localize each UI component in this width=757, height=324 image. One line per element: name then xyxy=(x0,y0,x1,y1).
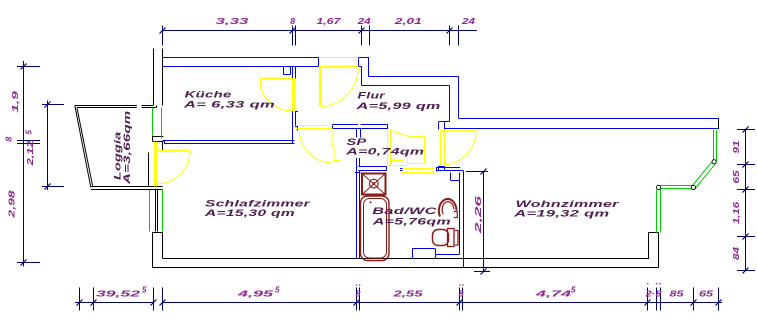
bad door frame xyxy=(403,168,435,170)
west wall junction bars xyxy=(153,136,164,138)
top dimension ticks xyxy=(162,26,164,46)
svg-text:4,74: 4,74 xyxy=(534,290,572,299)
svg-text:A= 6,33 qm: A= 6,33 qm xyxy=(182,99,275,109)
svg-text:5: 5 xyxy=(571,286,576,295)
svg-text:A=3,66qm: A=3,66qm xyxy=(122,111,132,186)
wohnzimmer door open leaf xyxy=(442,130,477,132)
schlafzimmer window xyxy=(149,190,151,232)
bad north wall west segment xyxy=(359,166,387,168)
top dimension line xyxy=(163,30,478,32)
blue walls xyxy=(163,58,720,268)
svg-text:3,33: 3,33 xyxy=(216,17,250,26)
SP door arc xyxy=(299,131,332,163)
svg-text:8: 8 xyxy=(459,290,465,299)
corridor diagonal leaf xyxy=(391,131,424,137)
schlafzimmer SW corner xyxy=(152,233,154,268)
bad door right jamb xyxy=(436,167,438,172)
washbasin xyxy=(439,199,457,217)
bay window east vertical xyxy=(713,130,715,162)
SP west wall upper stub xyxy=(356,129,358,138)
entry stub wall xyxy=(359,57,370,59)
yellow doors xyxy=(155,58,477,187)
bad NE duct notch xyxy=(450,173,452,181)
bottom dimension line xyxy=(75,302,154,304)
bay corner walls xyxy=(648,233,650,259)
wohnzimmer door closed leaf xyxy=(440,130,442,166)
loggia slanted west wall xyxy=(75,106,91,188)
svg-text:8: 8 xyxy=(356,290,362,299)
kueche partition notch xyxy=(283,67,285,75)
svg-text:85: 85 xyxy=(670,290,685,299)
svg-text:1,9: 1,9 xyxy=(11,90,20,113)
kueche window xyxy=(152,108,154,137)
bath fixtures xyxy=(361,174,459,261)
svg-text:A=19,32 qm: A=19,32 qm xyxy=(513,209,610,219)
schlafzimmer window mid frame xyxy=(155,190,157,232)
loggia door arc xyxy=(157,150,190,184)
toilet xyxy=(433,230,449,246)
svg-text:8: 8 xyxy=(656,290,663,299)
kueche door jamb cap xyxy=(296,111,299,113)
SP door frame xyxy=(296,125,333,127)
left outer dimension ticks xyxy=(17,66,40,68)
svg-text:2: 2 xyxy=(644,290,652,299)
svg-text:Bad/WC: Bad/WC xyxy=(372,206,437,216)
svg-text:A=5,76qm: A=5,76qm xyxy=(371,216,451,226)
wohnzimmer door wall lower jamb xyxy=(439,166,445,168)
loggia top wall xyxy=(75,105,137,107)
bathtub xyxy=(361,196,390,261)
SP east partition yellow xyxy=(387,130,389,166)
bad north wall stub at door xyxy=(400,168,403,170)
svg-text:5: 5 xyxy=(275,286,280,295)
svg-text:8: 8 xyxy=(290,17,296,26)
svg-text:24: 24 xyxy=(356,17,371,26)
svg-text:5: 5 xyxy=(142,286,147,295)
bottom wall inner edge xyxy=(163,258,650,260)
kueche door leaf xyxy=(261,78,293,80)
svg-text:24: 24 xyxy=(461,17,476,26)
right dimension ticks xyxy=(737,129,755,131)
svg-text:1,67: 1,67 xyxy=(316,17,341,26)
wohnzimmer top wall xyxy=(459,118,720,120)
svg-text:39,52: 39,52 xyxy=(96,290,141,299)
svg-text:A=5,99 qm: A=5,99 qm xyxy=(355,101,441,111)
loggia bottom wall xyxy=(91,186,163,188)
fixture box near toilet xyxy=(412,249,414,259)
shower tray xyxy=(362,174,386,195)
svg-text:2,26: 2,26 xyxy=(474,195,483,236)
svg-text:84: 84 xyxy=(732,246,741,260)
svg-text:Flur: Flur xyxy=(358,91,387,101)
wohnzimmer door arc xyxy=(446,131,477,165)
svg-text:2,55: 2,55 xyxy=(392,290,424,299)
bad east wall xyxy=(459,180,461,254)
entry door leaf xyxy=(319,67,321,107)
west wall door jamb piece xyxy=(162,142,164,151)
svg-text:2,98: 2,98 xyxy=(8,190,17,220)
svg-text:2,01: 2,01 xyxy=(393,17,423,26)
kueche door frame verticals xyxy=(292,78,294,111)
svg-text:Schlafzimmer: Schlafzimmer xyxy=(205,198,312,208)
svg-text:A=15,30 qm: A=15,30 qm xyxy=(203,208,295,218)
flur top wall xyxy=(369,76,459,78)
svg-text:5: 5 xyxy=(25,130,34,135)
entry door arc xyxy=(322,67,359,107)
bottom dimension ticks xyxy=(79,288,81,311)
svg-text:Wohnzimmer: Wohnzimmer xyxy=(516,199,621,209)
svg-text:A=0,74qm: A=0,74qm xyxy=(345,146,425,156)
kueche east partition lower xyxy=(292,111,294,144)
bay window diagonal xyxy=(692,161,712,186)
bottom wall outer edge xyxy=(152,267,659,269)
svg-text:65: 65 xyxy=(699,290,714,299)
room labels xyxy=(113,90,621,227)
green windows xyxy=(150,108,717,233)
loggia door frame xyxy=(154,142,156,187)
flur south wall xyxy=(333,124,359,126)
wohnzimmer door wall upper xyxy=(438,122,440,130)
bay window south vertical xyxy=(656,190,658,233)
entry door frame xyxy=(319,57,359,59)
black walls xyxy=(75,49,719,268)
kueche east partition upper stub xyxy=(292,67,294,79)
loggia side rail xyxy=(148,153,150,187)
SP door leaf xyxy=(332,130,341,161)
flur right wall xyxy=(449,86,451,122)
svg-text:8: 8 xyxy=(5,136,14,142)
west wall upper xyxy=(153,49,155,106)
SP west wall lower / bad west wall xyxy=(356,158,358,259)
kueche south wall xyxy=(163,140,295,142)
right dimension line xyxy=(745,130,747,271)
top wall right end cap xyxy=(718,118,720,129)
bad north wall east segment xyxy=(436,167,460,169)
svg-text:SP: SP xyxy=(347,137,368,147)
bay window horizontal xyxy=(657,185,694,187)
left outer dimension line xyxy=(23,61,25,267)
interior dimension 2,26 xyxy=(483,171,485,272)
loggia door leaf xyxy=(157,150,191,152)
kueche top wall xyxy=(163,57,359,59)
svg-text:2,12: 2,12 xyxy=(26,140,35,167)
svg-text:4,95: 4,95 xyxy=(236,290,274,299)
svg-text:Küche: Küche xyxy=(185,90,232,100)
bad south inner line xyxy=(436,254,460,256)
bay node circles xyxy=(657,160,717,190)
svg-text:Loggia: Loggia xyxy=(113,132,123,181)
svg-text:91: 91 xyxy=(732,140,741,154)
svg-text:1,16: 1,16 xyxy=(732,201,741,224)
bad door lintel staple xyxy=(407,159,409,164)
left inner dimension line 2,12 xyxy=(47,101,49,191)
kueche door arc xyxy=(261,88,293,111)
svg-text:65: 65 xyxy=(732,170,741,184)
